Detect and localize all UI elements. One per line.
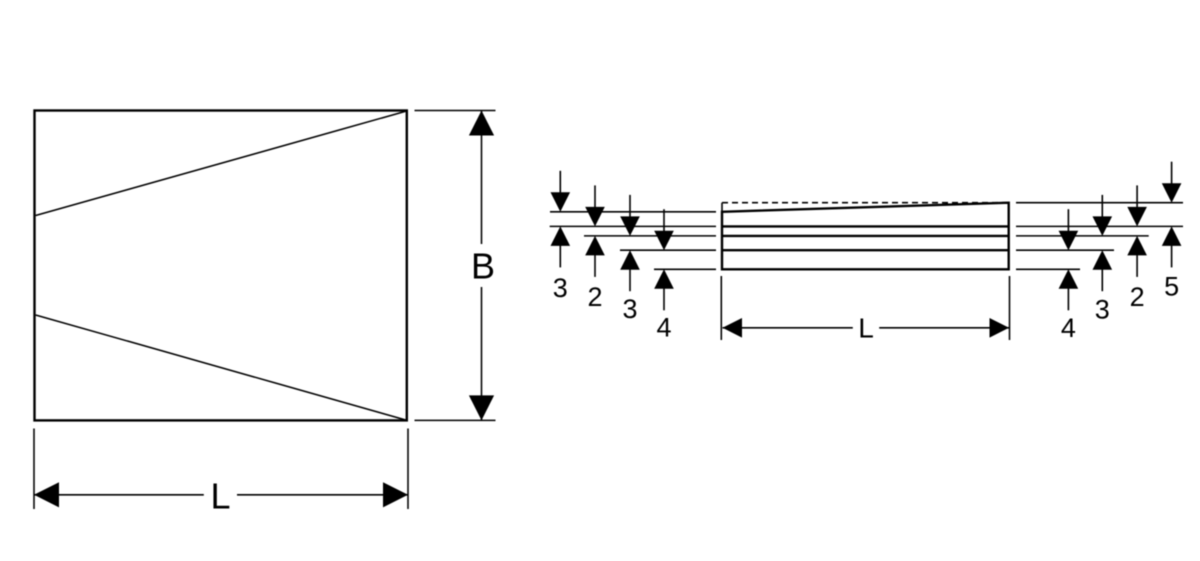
dimension line L right segment (237, 494, 408, 496)
right dim 2 down arrow (1127, 185, 1147, 226)
layer line 3 (722, 249, 1009, 251)
extension line bottom for B (415, 419, 496, 421)
svg-text:2: 2 (1130, 282, 1145, 312)
extension line top for B (415, 110, 496, 112)
extension line left level 4 (620, 249, 716, 251)
left dim 2 up arrow (585, 236, 605, 277)
svg-text:4: 4 (656, 313, 671, 343)
right dim 4 down arrow (1059, 209, 1079, 250)
arrowhead B top (469, 111, 494, 136)
svg-text:L: L (858, 313, 874, 344)
svg-text:4: 4 (1061, 313, 1076, 343)
extension line left for L (33, 429, 35, 510)
left dim 4 down arrow (654, 209, 674, 250)
arrowhead section L left (723, 318, 743, 338)
extension line right level 4 (1016, 249, 1114, 251)
ridge line upper (36, 111, 407, 216)
extension line left level 1 (550, 211, 716, 213)
right dim 4 up arrow (1059, 269, 1079, 310)
plan view outline (35, 111, 407, 421)
svg-text:B: B (471, 246, 495, 287)
dimension line section L left segment (723, 327, 853, 329)
arrowhead L left (34, 482, 59, 507)
arrowhead B bottom (469, 395, 494, 420)
dashed corner connector (721, 203, 723, 212)
extension line left for section L (720, 276, 722, 340)
right dim 3 down arrow (1093, 195, 1113, 236)
svg-text:3: 3 (553, 273, 568, 303)
extension line right for L (407, 429, 409, 510)
svg-text:2: 2 (587, 282, 602, 312)
extension line left level 5 (654, 268, 716, 270)
extension line right level 2 (1016, 225, 1183, 227)
arrowhead L right (383, 482, 408, 507)
right dim 2 up arrow (1127, 236, 1147, 277)
svg-text:5: 5 (1164, 272, 1179, 302)
left dim 4 up arrow (654, 269, 674, 310)
dimension line B lower segment (481, 287, 483, 420)
left dim 3a down arrow (551, 171, 571, 212)
extension line left level 2 (550, 225, 716, 227)
dimension line B upper segment (481, 111, 483, 245)
left dim 2 down arrow (585, 185, 605, 226)
dimension line section L right segment (879, 327, 1009, 329)
svg-text:L: L (210, 476, 230, 517)
dashed projection line (722, 202, 1009, 204)
layer line 1 (722, 225, 1009, 227)
svg-text:3: 3 (1095, 295, 1110, 325)
extension line right for section L (1009, 276, 1011, 340)
right dim 5 down arrow (1162, 162, 1182, 203)
extension line right level 5 (1016, 268, 1080, 270)
left dim 3b up arrow (620, 250, 640, 291)
left dim 3b down arrow (620, 195, 640, 236)
section body outline (722, 203, 1009, 270)
layer line 2 (722, 235, 1009, 237)
dimension line L left segment (34, 494, 204, 496)
extension line right level 1 (1016, 202, 1183, 204)
extension line left level 3 (584, 235, 716, 237)
right dim 3 up arrow (1093, 250, 1113, 291)
right dim 5 up arrow (1162, 226, 1182, 267)
arrowhead section L right (990, 318, 1010, 338)
left dim 3a up arrow (551, 226, 571, 267)
extension line right level 3 (1016, 235, 1149, 237)
svg-text:3: 3 (622, 294, 637, 324)
ridge line lower (36, 315, 407, 420)
